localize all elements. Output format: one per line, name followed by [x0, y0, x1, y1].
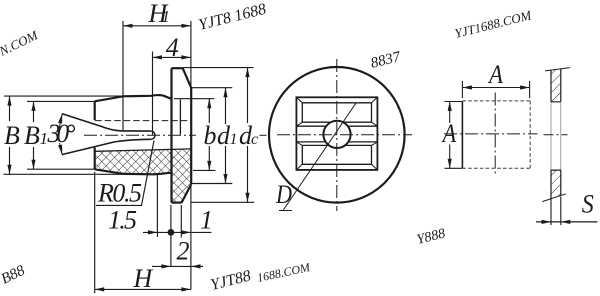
- flange right face: [190, 88, 192, 184]
- body bottom edge: [95, 169, 172, 174]
- 2 dim line: [152, 265, 203, 267]
- 4 dim: [152, 52, 154, 136]
- slot upper edge: [62, 114, 150, 132]
- svg-text:B: B: [4, 121, 20, 150]
- slot lower edge: [62, 139, 151, 154]
- B dim line: [9, 96, 11, 121]
- B extension lines: [4, 95, 128, 97]
- flange top edge: [172, 67, 183, 69]
- H dim: [94, 172, 96, 293]
- svg-text:N.COM: N.COM: [0, 27, 41, 59]
- flange bottom edge: [172, 202, 182, 204]
- dot on chain dim: [168, 229, 175, 236]
- D leader: [279, 103, 356, 211]
- outer square: [296, 97, 377, 170]
- svg-text:1: 1: [162, 7, 171, 26]
- svg-text:YJT8 1688: YJT8 1688: [197, 1, 268, 34]
- svg-text:YJT1688.COM: YJT1688.COM: [453, 7, 534, 41]
- svg-text:4: 4: [166, 33, 179, 62]
- chain dim 1.5 / 1: [143, 231, 212, 233]
- A top dim: [462, 81, 529, 98]
- svg-text:D: D: [275, 180, 292, 209]
- B1 dim line: [33, 101, 35, 122]
- svg-text:1: 1: [230, 131, 238, 148]
- hatch flange section: [172, 149, 192, 203]
- svg-text:b: b: [204, 121, 217, 150]
- flange bottom chamfer: [182, 184, 192, 202]
- svg-text:8837: 8837: [369, 49, 403, 72]
- lower hatch block: [551, 170, 561, 198]
- 30 deg angular dimension arrows: [58, 113, 64, 123]
- dimension arrowheads left view: [7, 96, 11, 106]
- S ext lines: [551, 197, 561, 226]
- plate side view: [536, 68, 598, 225]
- S dim line: [536, 221, 598, 223]
- center hole: [323, 121, 350, 148]
- vertical CL: [336, 59, 338, 211]
- top break line: [545, 68, 570, 71]
- svg-text:30°: 30°: [47, 119, 76, 148]
- bottom break line: [542, 194, 566, 202]
- svg-text:A: A: [441, 119, 456, 148]
- hatch body section: [95, 149, 172, 174]
- A left dim: [445, 102, 463, 169]
- svg-text:B: B: [24, 121, 40, 150]
- svg-text:Y888: Y888: [415, 226, 447, 248]
- R0.5 slot end: [150, 131, 155, 139]
- slot band miters: [296, 122, 377, 145]
- horizontal CL: [277, 134, 412, 136]
- nose top slant: [95, 96, 123, 101]
- inner bevel frame upper half: [302, 103, 371, 122]
- center lines: [494, 93, 496, 177]
- nose face lower / hatch left edge: [94, 148, 96, 170]
- body top edge with bump: [123, 95, 172, 99]
- square hole: left solid: [461, 101, 463, 168]
- flange top chamfer: [183, 68, 192, 88]
- slot lines: [296, 122, 377, 145]
- b ext + dim: [174, 98, 215, 100]
- middle thin edges: [551, 102, 561, 170]
- dc ext + dim: [183, 67, 254, 69]
- flange left face: [170, 68, 172, 202]
- svg-text:B88: B88: [0, 262, 28, 287]
- center line: [84, 134, 196, 136]
- svg-text:R0.5: R0.5: [97, 179, 142, 208]
- svg-text:c: c: [251, 131, 258, 148]
- svg-text:2: 2: [177, 237, 190, 266]
- corner miters: [296, 97, 377, 170]
- upper hatch block: [551, 69, 561, 102]
- svg-text:1.5: 1.5: [108, 206, 137, 235]
- svg-text:1: 1: [200, 206, 213, 235]
- svg-text:YJT88: YJT88: [209, 267, 253, 293]
- hidden thread line: [95, 120, 191, 122]
- texts left view: [4, 0, 258, 293]
- dashed edges: [462, 101, 530, 168]
- svg-text:S: S: [582, 190, 594, 219]
- nose face upper: [94, 101, 96, 120]
- inner flange vertical line: [179, 100, 181, 135]
- CL: [544, 134, 568, 136]
- H1 dim: [122, 21, 124, 130]
- d1 ext + dim: [191, 87, 232, 89]
- svg-text:1688.COM: 1688.COM: [256, 260, 312, 285]
- 30 deg arc: [59, 114, 62, 129]
- inner bevel frame lower half: [302, 145, 371, 164]
- hatch top edge: [95, 149, 192, 151]
- outer circle flange: [269, 67, 405, 203]
- B1 extension lines: [27, 100, 95, 102]
- R0.5 leader: [96, 141, 154, 206]
- svg-text:A: A: [487, 60, 503, 89]
- svg-text:H: H: [133, 264, 154, 293]
